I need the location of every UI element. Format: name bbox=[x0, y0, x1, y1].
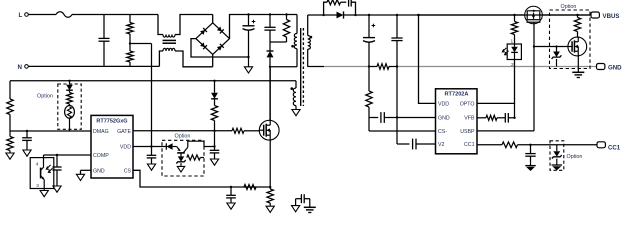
wire Q1 drain bbox=[269, 68, 271, 120]
resistor R3 clamp bbox=[286, 15, 288, 20]
svg-text:CC1: CC1 bbox=[608, 145, 621, 152]
capacitor C11 COMP bbox=[56, 154, 58, 156]
wire opto LED to OPTO pin bbox=[477, 60, 515, 104]
ground CC1 zener bbox=[556, 162, 558, 165]
capacitor C4 output electrolytic bbox=[368, 14, 370, 16]
wire GND pin U1 to ground bbox=[81, 169, 92, 171]
zener diode Z2 CC1 clamp bbox=[556, 145, 558, 151]
resistor R12 DMAG lower bbox=[9, 131, 11, 137]
transistor Q3 discharge MOSFET bbox=[568, 37, 587, 56]
diode D3 option bbox=[68, 80, 70, 82]
ground arrow C10 bbox=[26, 148, 28, 151]
wire L rail into bridge top corner bbox=[212, 15, 214, 23]
diode D4 aux to gate node bbox=[213, 80, 215, 82]
opto light arrows into transistor bbox=[46, 165, 50, 169]
capacitor C8 VFB bbox=[497, 117, 505, 119]
wire CS- to IC bbox=[369, 130, 436, 132]
resistor R6 CS sense bbox=[368, 67, 370, 92]
wire CS pin routing bbox=[133, 170, 270, 187]
bridge diode top-right bbox=[217, 26, 224, 33]
svg-text:L: L bbox=[19, 12, 23, 19]
optocoupler U3 LED box bbox=[507, 44, 521, 60]
optocoupler U3 LED diode bbox=[514, 44, 516, 47]
wire VDD U1 line bbox=[133, 146, 162, 148]
bridge diode bottom-right bbox=[217, 44, 224, 51]
capacitor C9 CC1 bbox=[529, 144, 531, 146]
wire primary bottom to drain bbox=[270, 66, 297, 68]
earth ground Q3 source bbox=[577, 67, 579, 73]
wire clamp RC join bbox=[270, 41, 287, 43]
resistor R5 shunt bbox=[377, 64, 389, 70]
transformer T1 core dashed bbox=[302, 28, 304, 106]
ground arrow R12 bbox=[9, 151, 11, 154]
svg-text:N: N bbox=[18, 64, 23, 71]
choke L1 top winding bbox=[158, 15, 163, 35]
svg-text:VFB: VFB bbox=[464, 116, 475, 122]
zener diode Z1 gate clamp bbox=[556, 47, 558, 52]
wire GATE line bbox=[133, 130, 231, 132]
transistor Q2 pass MOSFET bbox=[525, 6, 543, 24]
resistor R4 snubber bbox=[324, 2, 327, 15]
svg-text:4: 4 bbox=[36, 161, 39, 167]
resistor R9 discharge bbox=[576, 14, 578, 16]
terminal CC1 bbox=[597, 142, 605, 148]
capacitor C5 output bbox=[396, 14, 398, 16]
capacitor C10 DMAG bbox=[26, 130, 28, 132]
svg-text:VDD: VDD bbox=[120, 145, 131, 151]
transformer T1 aux winding bbox=[295, 81, 297, 88]
wire N line bbox=[29, 65, 160, 67]
option box DMAG dashed bbox=[58, 84, 81, 129]
secondary polarity dot bbox=[310, 36, 313, 39]
svg-text:VDD: VDD bbox=[438, 102, 449, 108]
aux polarity dot bbox=[290, 87, 293, 90]
diode D5 option gate bbox=[162, 146, 166, 148]
wire divider tap to VDD riser bbox=[130, 43, 152, 45]
transformer T1 primary winding bbox=[296, 15, 298, 34]
svg-text:OPTO: OPTO bbox=[460, 102, 475, 108]
ground CC1 cap bbox=[530, 163, 532, 166]
fuse F1 bbox=[56, 12, 72, 17]
wire bridge bottom corner to N return bbox=[212, 54, 214, 66]
wire Q3 source to ground bbox=[577, 56, 579, 67]
wire gate riser vertical bbox=[533, 24, 535, 131]
ground arrow C14 bbox=[230, 202, 232, 204]
wire COMP line bbox=[44, 154, 92, 156]
capacitor C7 V2 bbox=[397, 143, 410, 145]
wire OPTO node down to VFB RC bbox=[514, 103, 516, 117]
opto light arrows bbox=[502, 48, 506, 52]
resistor R18 sense bbox=[269, 186, 271, 188]
transformer T1 secondary winding bbox=[307, 15, 309, 36]
opto transistor NPN bbox=[43, 155, 45, 165]
wire bridge left corner to DC minus bbox=[191, 39, 249, 57]
svg-text:Option: Option bbox=[37, 93, 53, 99]
svg-text:CS-: CS- bbox=[438, 129, 447, 135]
wire CC1 from IC bbox=[477, 144, 502, 146]
svg-text:Option: Option bbox=[175, 134, 191, 140]
option box CC1 dashed bbox=[550, 141, 564, 171]
wire secondary top rail bbox=[308, 14, 324, 16]
svg-text:Option: Option bbox=[561, 4, 577, 10]
ground arrow primary DC minus bbox=[247, 56, 249, 58]
wire secondary ground left bbox=[308, 66, 324, 68]
wire USBP to gate riser bbox=[477, 130, 534, 132]
resistor R7 opto LED bbox=[513, 14, 515, 16]
svg-text:3: 3 bbox=[36, 183, 39, 189]
svg-text:CC1: CC1 bbox=[464, 142, 475, 148]
plus sign C4 bbox=[372, 25, 376, 27]
capacitor C6 CS filter bbox=[369, 117, 378, 119]
wire gate node vertical bbox=[213, 130, 215, 132]
resistor R10 CC1 bbox=[502, 142, 518, 148]
resistor R2 divider bottom bbox=[129, 44, 131, 52]
choke L1 bottom winding bbox=[159, 51, 163, 66]
svg-text:CS: CS bbox=[124, 168, 132, 174]
op-amp U1 RT7752GxG controller box bbox=[91, 115, 133, 178]
terminal GND bbox=[597, 64, 605, 70]
svg-text:Option: Option bbox=[567, 154, 583, 160]
ground arrow C13 bbox=[151, 163, 153, 165]
terminal VBUS bbox=[591, 12, 599, 18]
wire secondary ground gray 1 bbox=[324, 66, 369, 68]
ground arrow Z3 bbox=[180, 165, 182, 166]
optocoupler U3 transistor box bbox=[30, 158, 54, 189]
ground arrow Y-cap primary side bbox=[295, 199, 297, 206]
resistor R8 VFB bbox=[477, 117, 486, 119]
svg-text:COMP: COMP bbox=[93, 153, 109, 159]
wire fuse to choke bbox=[72, 14, 158, 16]
wire V2 riser bbox=[396, 67, 398, 145]
transistor Q4 PNP option bbox=[177, 147, 181, 151]
resistor R14 aux feed bbox=[214, 99, 216, 106]
resistor R13 option bbox=[69, 90, 71, 92]
wire aux rail horizontal bbox=[10, 80, 296, 82]
wire VBUS to VDD bbox=[417, 14, 419, 16]
svg-text:V2: V2 bbox=[438, 142, 445, 148]
svg-text:1: 1 bbox=[511, 38, 514, 44]
op-amp U2 RT7202A controller box bbox=[436, 89, 478, 154]
wire secondary ground gray 2 bbox=[397, 66, 597, 68]
resistor R16 option base bbox=[181, 157, 187, 159]
resistor R17 CS bbox=[244, 185, 256, 190]
wire VDD riser vertical bbox=[151, 44, 153, 147]
svg-text:GND: GND bbox=[438, 116, 450, 122]
ground arrow C12 bbox=[214, 158, 216, 160]
option box discharge dashed bbox=[550, 10, 591, 69]
ground arrow R18 bbox=[269, 205, 271, 206]
svg-text:RT7752GxG: RT7752GxG bbox=[96, 119, 127, 125]
wire VBUS line bbox=[417, 14, 525, 16]
earth ground Y-cap secondary side bbox=[309, 199, 311, 208]
bridge rectifier BD1 diamond bbox=[196, 23, 230, 55]
transistor Q1 main MOSFET bbox=[259, 120, 279, 140]
zener diode Z3 option bbox=[180, 153, 182, 157]
capacitor C13 VDD bbox=[151, 147, 153, 156]
bridge diode top-left bbox=[200, 28, 207, 35]
capacitor CY1 Y-cap bbox=[300, 194, 302, 203]
ground arrow opto emitter bbox=[43, 189, 45, 191]
capacitor C3 snubber bbox=[341, 1, 347, 3]
diode D1 clamp bbox=[269, 42, 271, 51]
transformer T1 core solid bbox=[300, 28, 302, 106]
choke L1 core bbox=[163, 39, 177, 41]
svg-text:DMAG: DMAG bbox=[93, 129, 109, 135]
svg-text:GND: GND bbox=[608, 65, 622, 72]
wire bridge right corner to DC plus rail bbox=[230, 15, 298, 39]
wire shunt section bbox=[369, 66, 377, 68]
wire DMAG line bbox=[10, 130, 91, 132]
svg-text:USBP: USBP bbox=[460, 129, 475, 135]
wire aux rail left corner down bbox=[9, 81, 11, 99]
svg-text:GATE: GATE bbox=[117, 129, 131, 135]
resistor R1 divider top bbox=[129, 15, 131, 23]
svg-text:GND: GND bbox=[93, 168, 105, 174]
capacitor C2 clamp bbox=[269, 15, 271, 28]
varistor RV1 option bbox=[69, 104, 71, 106]
wire Q1 source bbox=[269, 140, 271, 187]
svg-text:2: 2 bbox=[511, 62, 514, 68]
capacitor C1 bulk electrolytic bbox=[248, 15, 250, 26]
primary polarity dot bbox=[291, 45, 294, 48]
diode D2 output rectifier bbox=[324, 14, 337, 16]
svg-text:VBUS: VBUS bbox=[603, 13, 620, 20]
capacitor C14 CS filter bbox=[230, 186, 232, 188]
resistor R11 DMAG upper bbox=[7, 99, 13, 115]
wire GND pin bbox=[397, 117, 436, 119]
option box middle dashed bbox=[162, 140, 204, 176]
wire gate link to option FET bbox=[534, 46, 568, 48]
ground arrow C11 bbox=[56, 185, 58, 187]
resistor R15 gate bbox=[231, 130, 232, 132]
ground arrow aux winding bbox=[295, 106, 297, 110]
bridge diode bottom-left bbox=[200, 42, 207, 49]
capacitor CX1 X-cap bbox=[103, 15, 105, 39]
wire L to fuse bbox=[29, 14, 56, 16]
plus sign C1 bbox=[252, 21, 256, 23]
capacitor C12 gate node bbox=[210, 149, 220, 151]
svg-text:RT7202A: RT7202A bbox=[445, 91, 469, 97]
